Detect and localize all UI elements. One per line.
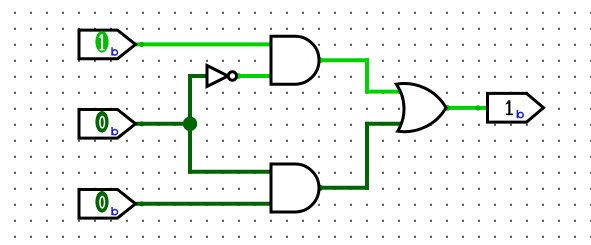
node: connection at AND U1 input B: [269, 73, 275, 79]
value label 0 of pin IN3: [100, 197, 105, 208]
node: connection at OR U4 input B: [400, 121, 406, 127]
NOT gate U3 body: [207, 66, 228, 87]
node: connection point at pin OUT1: [475, 105, 480, 110]
node: connection at NOT U3 output: [236, 73, 242, 79]
value label 1 of pin OUT1: [505, 100, 513, 115]
wire net W5: AND U1 output to OR U4 input A (value 1): [319, 58, 369, 62]
input pin IN3 body: [79, 190, 136, 219]
wire: vertical riser through junction: [188, 74, 192, 174]
wire net W4: NOT U3 output to AND U1 input B (value 1): [235, 74, 273, 78]
NOT gate U3 inversion bubble: [228, 72, 236, 80]
radix label b of pin IN1: [111, 47, 117, 55]
value label 0 of pin IN2: [100, 117, 105, 128]
wire net W2: pin IN2 to junction (value 0): [136, 122, 193, 126]
node: connection point at pin IN2 tip: [139, 121, 144, 126]
node: connection at AND U2 input B: [269, 201, 275, 207]
output pin OUT1 body: [488, 93, 544, 122]
wire: riser to NOT U3 input: [189, 74, 209, 78]
wire net W3: pin IN3 to AND U2 input B (value 0): [136, 202, 273, 206]
wire: riser to AND U2 input A: [189, 170, 273, 174]
value label 1 of pin IN1: [99, 34, 105, 50]
wire net W7: OR U4 output to pin OUT1 (value 1): [446, 106, 488, 110]
input pin IN2 body: [79, 110, 136, 139]
node: connection at AND U2 input A: [269, 169, 275, 175]
AND gate U1 body: [271, 36, 319, 84]
OR gate U4 body: [396, 84, 446, 132]
node: connection at OR U4 input A: [400, 89, 406, 95]
node: connection at AND U1 input A: [269, 42, 275, 48]
radix label b of pin IN2: [111, 127, 117, 135]
input pin IN1 body: [79, 30, 136, 59]
wire: vertical segment of net W6: [365, 122, 369, 190]
radix label b of pin OUT1: [517, 110, 524, 118]
value indicator oval of pin IN2 (logic 0): [95, 111, 108, 133]
node: connection at AND U1 output: [317, 57, 323, 63]
AND gate U2 body: [271, 164, 319, 212]
wire: horizontal into OR U4 input B: [365, 122, 403, 126]
wire net W6: AND U2 output to OR U4 input B (value 0): [319, 186, 369, 190]
wire: horizontal into OR U4 input A: [365, 90, 403, 94]
wire: vertical segment of net W5: [365, 58, 369, 93]
radix label b of pin IN3: [111, 207, 117, 215]
value indicator oval of pin IN3 (logic 0): [95, 191, 108, 213]
node: connection at AND U2 output: [317, 185, 323, 191]
node: connection point at pin IN3 tip: [139, 201, 144, 206]
junction: wire junction dot: [183, 117, 197, 131]
wire net W1: pin IN1 to AND U1 input A (value 1): [136, 42, 273, 46]
node: connection point at pin IN1 tip: [139, 42, 144, 47]
value indicator oval of pin IN1 (logic 1): [95, 31, 108, 53]
node: connection at OR U4 output: [445, 105, 451, 111]
